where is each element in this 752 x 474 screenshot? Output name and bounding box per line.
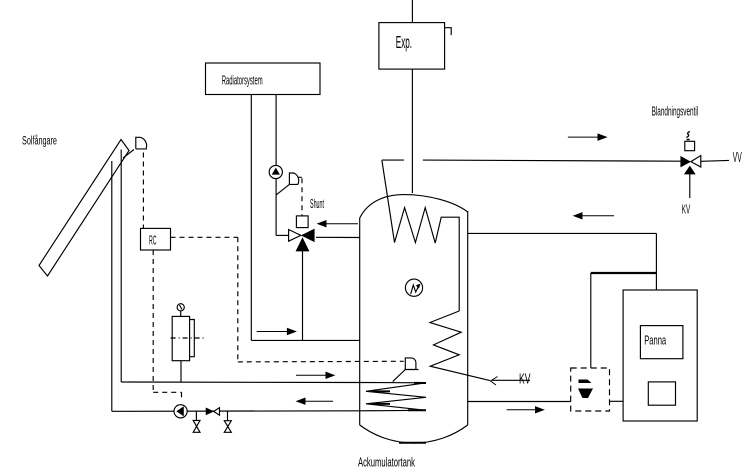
svg-text:Ackumulatortank: Ackumulatortank (358, 456, 415, 471)
svg-text:KV: KV (682, 203, 691, 217)
svg-text:KV: KV (519, 370, 531, 387)
svg-text:RC: RC (149, 234, 157, 248)
svg-text:VV: VV (733, 149, 742, 166)
svg-text:Solfångare: Solfångare (22, 135, 57, 148)
svg-text:Blandningsventil: Blandningsventil (652, 105, 699, 119)
svg-text:Exp.: Exp. (396, 31, 412, 52)
svg-text:Panna: Panna (644, 334, 666, 349)
svg-text:Shunt: Shunt (310, 197, 324, 211)
svg-text:Radiatorsystem: Radiatorsystem (222, 74, 263, 88)
